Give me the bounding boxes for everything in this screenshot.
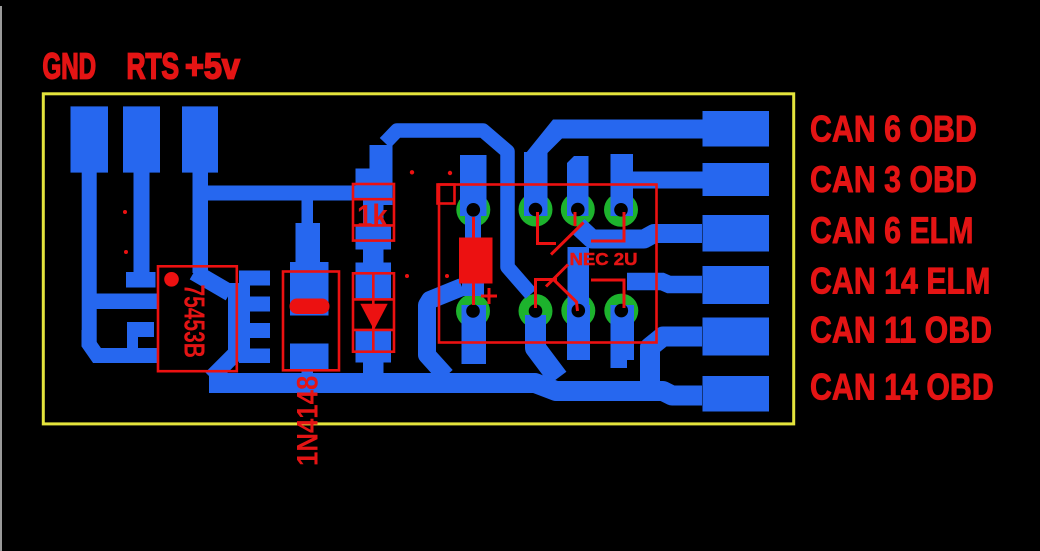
svg-text:CAN 14 ELM: CAN 14 ELM [810,261,990,303]
svg-text:1N4148: 1N4148 [291,376,324,466]
svg-text:1k: 1k [357,199,388,234]
svg-text:CAN 14 OBD: CAN 14 OBD [810,367,994,409]
svg-text:RTS: RTS [127,45,180,86]
svg-text:+5v: +5v [185,47,240,87]
svg-text:75453B: 75453B [178,285,210,358]
svg-text:NEC 2U: NEC 2U [570,249,638,268]
svg-text:CAN 6 OBD: CAN 6 OBD [810,109,977,151]
svg-text:GND: GND [43,47,97,87]
svg-text:CAN 11 OBD: CAN 11 OBD [810,310,992,352]
svg-text:CAN 6 ELM: CAN 6 ELM [810,210,973,252]
svg-text:CAN 3 OBD: CAN 3 OBD [810,159,977,201]
